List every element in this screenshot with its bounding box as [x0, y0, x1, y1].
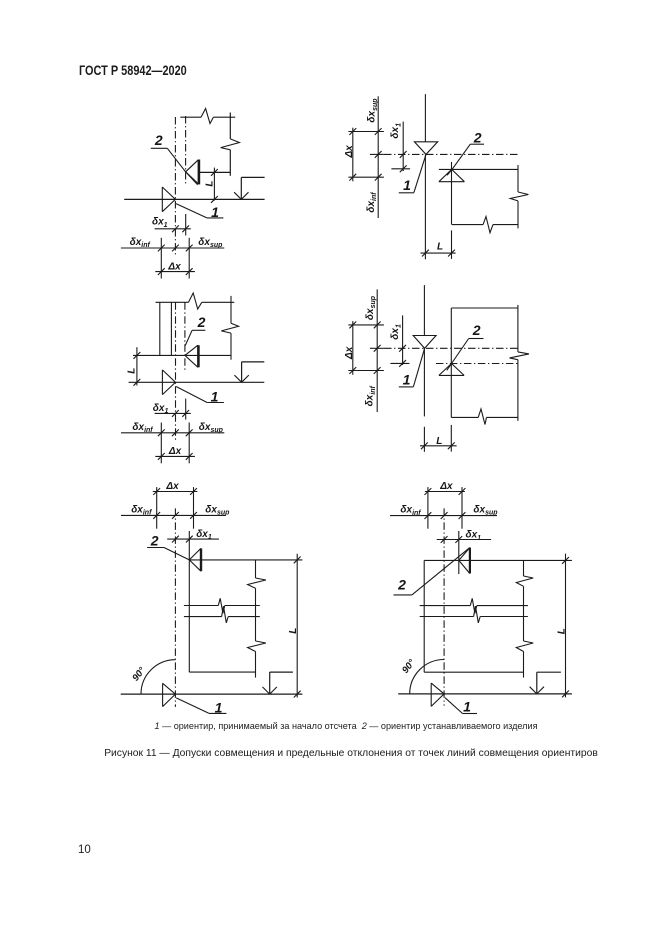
D6 limit deviations dimension line	[390, 515, 497, 517]
svg-text:L: L	[557, 628, 568, 634]
D1 label 1 leader line	[176, 204, 207, 218]
D1 label 2 leader line	[151, 147, 168, 149]
D6 item break lower zigzag	[474, 606, 481, 623]
D6 item break lower line	[420, 616, 474, 618]
D6 orientir 1 symbol (triangle)	[431, 683, 444, 706]
D5 extension of axis 2 above orientir 2	[188, 531, 190, 560]
D5 orientir 2 level line / item top edge	[189, 559, 302, 561]
D1 extension of axis 2 for delta-x1	[185, 214, 187, 236]
svg-text:δx1: δx1	[390, 123, 402, 139]
D4 label 2 leader line	[469, 338, 484, 340]
D5 right angle arc	[141, 660, 175, 694]
D1 orientir 2 symbol (triangle with base bar)	[186, 160, 199, 184]
D1 dimension L line	[213, 168, 215, 201]
D5 item outline bottom edge	[189, 671, 255, 673]
D6 item outline bottom edge	[424, 671, 523, 673]
D6 label 1 leader line	[445, 698, 462, 714]
D5 item break upper zigzag	[218, 598, 225, 613]
D3 reference corner hook	[242, 361, 265, 363]
svg-text:1: 1	[403, 177, 411, 193]
D2 orientir 2 vertical wire / item left edge	[451, 162, 453, 225]
D2 limit deviations dimension line (vertical)	[377, 96, 379, 218]
D4 dimension line Delta-x (vertical)	[352, 321, 354, 375]
D3 orientir 2 symbol (triangle with base bar)	[185, 345, 198, 367]
D2 dimension line L	[421, 252, 456, 254]
D4 item outline bottom edge with break	[451, 416, 478, 418]
D4 axis of orientir 2 horizontal (dash-dot)	[436, 363, 518, 365]
D6 right angle arc	[410, 660, 444, 694]
svg-text:1: 1	[211, 389, 219, 405]
D6 dimension line Delta-x	[425, 491, 465, 493]
D5 reference corner hook	[270, 671, 293, 673]
D6 item outline left edge	[423, 560, 425, 672]
D5 dimension line L (vertical)	[296, 554, 298, 698]
D3 item outline right edge with break	[230, 296, 232, 323]
svg-text:2: 2	[154, 132, 163, 148]
figure caption legend	[0, 721, 661, 731]
D5 dimension line delta-x1	[167, 538, 219, 540]
D1 limit deviations dimension line	[121, 247, 224, 249]
D3 dimension line Delta-x	[155, 455, 195, 457]
D3 dimension L line	[136, 347, 138, 385]
D6 axis line 1 (dash-dot)	[443, 508, 445, 705]
svg-text:δxsup: δxsup	[367, 98, 379, 123]
D1 main base line (wire)	[124, 198, 264, 200]
D1 extension line lower limit	[160, 238, 162, 279]
svg-text:2: 2	[397, 577, 406, 593]
D5 label 1 leader line	[176, 698, 209, 713]
D6 item outline right edge with breaks	[523, 560, 525, 576]
svg-text:2: 2	[472, 322, 481, 338]
D6 reference corner hook	[537, 671, 561, 673]
svg-text:2: 2	[197, 314, 206, 330]
svg-text:δx1: δx1	[152, 217, 168, 229]
D6 orientir 2 level line / item top edge	[424, 559, 572, 561]
D2 extension line lower limit	[348, 176, 384, 178]
svg-text:1: 1	[211, 204, 219, 220]
D6 main base line (wire)	[398, 693, 572, 695]
D2 axis of orientir 1 vertical (wire)	[424, 94, 426, 142]
D1 axis line 2 (installed item axis, dash-dot)	[185, 116, 187, 185]
D4 label 1 leader line	[413, 348, 424, 386]
D3 item outline top edge with break	[156, 301, 189, 303]
D4 item outline left edge	[450, 308, 452, 417]
svg-text:L: L	[288, 628, 299, 634]
D1 dimension line delta-x1	[155, 228, 191, 230]
D3 axis line 2 (dash-dot)	[184, 302, 186, 370]
svg-text:90°: 90°	[130, 665, 148, 683]
D3 item outline left edge	[159, 302, 161, 355]
svg-text:δxsup: δxsup	[205, 504, 230, 516]
D2 label 1 leader line	[414, 154, 426, 192]
D2 dimension line delta-x1 (vertical)	[402, 122, 404, 172]
D1 reference corner hook	[241, 176, 264, 178]
D2 extension line at orientir 2 level	[391, 168, 410, 170]
D4 orientir 1 symbol (triangle down)	[413, 336, 436, 349]
D2 item outline bottom edge with break	[452, 224, 483, 226]
D2 item outline top edge	[439, 168, 518, 170]
D5 item break lower zigzag	[222, 606, 229, 623]
svg-text:L: L	[436, 436, 442, 447]
D4 dimension line delta-x1 (vertical)	[402, 315, 404, 365]
D6 orientir 2 symbol (triangle with base bar)	[459, 548, 470, 574]
D2 extension line upper limit	[348, 131, 384, 133]
D6 dimension line L (vertical)	[565, 554, 567, 698]
D5 extension line upper limit	[193, 487, 195, 529]
D1 axis line 1 (reference orientir vertical axis, dash-dot)	[174, 117, 176, 256]
D1 item outline right edge with break	[229, 113, 231, 139]
D3 orientir 1 symbol (triangle)	[162, 370, 175, 395]
svg-text:δxsup: δxsup	[198, 237, 223, 249]
D1 item outline top edge with break	[180, 116, 201, 118]
svg-text:δxsup: δxsup	[473, 504, 498, 516]
svg-text:Δx: Δx	[344, 145, 355, 159]
D5 axis line 1 (dash-dot)	[174, 508, 176, 707]
svg-text:δxinf: δxinf	[366, 192, 378, 213]
D5 item break lower line	[184, 616, 222, 618]
svg-text:δxinf: δxinf	[131, 504, 152, 516]
D6 extension of axis 2 above orientir 2	[458, 531, 460, 574]
D4 item outline top edge	[451, 307, 518, 309]
D5 limit deviations dimension line	[121, 514, 225, 516]
D5 orientir 2 symbol (triangle with base bar)	[189, 548, 201, 571]
svg-text:Δx: Δx	[439, 481, 453, 492]
D2 label 2 leader line	[470, 143, 484, 145]
D3 extension of axis 2 for delta-x1	[185, 399, 187, 420]
D3 label 1 leader line	[176, 387, 207, 403]
svg-text:δxinf: δxinf	[400, 505, 421, 517]
svg-text:δx1: δx1	[466, 530, 482, 542]
D2 extension segment at axis level	[370, 153, 384, 155]
D4 extension line upper limit	[348, 324, 384, 326]
D2 orientir 2 symbol (triangle up)	[439, 169, 465, 181]
D2 extension of orientir 2 axis for L	[451, 230, 453, 259]
D2 orientir 1 symbol (triangle down)	[414, 142, 437, 155]
D4 axis of orientir 1 horizontal (dash-dot)	[384, 347, 518, 349]
D3 extension line lower limit	[160, 423, 162, 464]
D5 main base line (wire)	[121, 693, 303, 695]
D4 limit deviations dimension line (vertical)	[376, 289, 378, 412]
svg-text:δxsup: δxsup	[199, 422, 224, 434]
svg-text:δxsup: δxsup	[365, 295, 377, 320]
D5 item break upper line	[184, 605, 218, 607]
D3 item inner edge (wire)	[170, 302, 172, 355]
figure caption title	[0, 748, 661, 759]
D4 extension line lower limit	[348, 370, 384, 372]
D6 extension line lower limit	[427, 487, 429, 529]
svg-text:δxinf: δxinf	[130, 237, 151, 249]
D6 extension line upper limit	[461, 487, 463, 529]
D4 item outline right edge with break	[517, 305, 519, 352]
D5 label 2 leader line	[147, 547, 164, 549]
D2 axis of orientir 1 horizontal (dash-dot)	[384, 153, 518, 155]
D6 item break upper line	[420, 605, 471, 607]
D5 item outline left edge	[188, 560, 190, 672]
D5 item outline right edge with breaks	[255, 560, 257, 578]
svg-text:δxinf: δxinf	[365, 385, 377, 406]
D3 orientir 2 level line / item bottom edge	[133, 354, 231, 356]
D5 extension line lower limit	[156, 487, 158, 529]
D4 extension of axis 1 for L	[423, 427, 425, 452]
page number	[78, 844, 91, 856]
svg-text:1: 1	[463, 699, 471, 715]
svg-text:2: 2	[150, 532, 159, 548]
svg-text:Δx: Δx	[168, 446, 182, 457]
D1 dimension line Delta-x	[155, 271, 195, 273]
D6 label 2 leader line	[394, 594, 412, 596]
svg-text:L: L	[126, 368, 137, 374]
D2 item outline right edge with break	[517, 165, 519, 192]
D3 main base line (wire)	[129, 381, 265, 383]
svg-text:90°: 90°	[400, 657, 418, 675]
svg-text:L: L	[437, 242, 443, 253]
D4 orientir 2 symbol (triangle up)	[439, 364, 464, 376]
D4 extension of orientir 2 axis for L	[450, 425, 452, 452]
svg-text:2: 2	[473, 129, 482, 145]
D2 dimension line Delta-x (vertical)	[352, 128, 354, 182]
D1 orientir 1 symbol (triangle)	[162, 187, 175, 212]
page header	[79, 62, 187, 78]
D1 extension line upper limit	[188, 238, 190, 279]
D6 dimension line delta-x1	[437, 539, 491, 541]
svg-text:Δx: Δx	[167, 261, 181, 272]
svg-text:δx1: δx1	[196, 529, 212, 541]
D4 dimension line L	[420, 445, 457, 447]
svg-text:Δx: Δx	[344, 346, 355, 360]
svg-text:L: L	[204, 181, 215, 187]
D3 label 2 leader line	[192, 329, 205, 331]
D3 dimension line delta-x1	[155, 412, 191, 414]
svg-text:δxinf: δxinf	[132, 422, 153, 434]
D3 limit deviations dimension line	[121, 432, 224, 434]
D5 dimension line Delta-x	[153, 491, 198, 493]
D4 axis of orientir 1 vertical (wire)	[423, 285, 425, 335]
D4 extension line at orientir 2 level	[390, 362, 409, 364]
svg-text:1: 1	[215, 699, 223, 715]
svg-text:1: 1	[403, 371, 411, 387]
D6 item break upper zigzag	[470, 598, 477, 613]
svg-text:Δx: Δx	[165, 481, 179, 492]
svg-text:δx1: δx1	[390, 324, 402, 340]
D5 orientir 1 symbol (triangle)	[163, 683, 176, 706]
D3 extension line upper limit	[188, 423, 190, 464]
D1 connector wire from orientir 2 to item edge	[200, 171, 231, 173]
D4 extension segment at axis level	[370, 347, 384, 349]
D3 axis line 1 (dash-dot)	[175, 302, 177, 441]
